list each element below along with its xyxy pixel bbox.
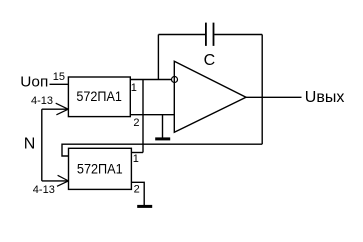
wire D1 pin 2 to op-amp non-inverting input (130, 114, 174, 116)
svg-text:4-13: 4-13 (33, 184, 55, 196)
svg-text:C: C (204, 52, 216, 69)
bus arrowhead D2 (57, 175, 68, 186)
op-amp U1 triangle (174, 61, 246, 132)
wire Uоп to DAC D1 pin 15 (50, 83, 69, 85)
wire feedback bottom (output to D2 reference input) (62, 144, 262, 156)
wire output (246, 96, 302, 98)
svg-text:1: 1 (131, 82, 137, 94)
svg-text:1: 1 (133, 153, 139, 165)
svg-text:Uвых: Uвых (305, 89, 345, 106)
wire junction: D1 pin1 node down to D2 pin1 (142, 80, 144, 153)
wire D2 pin 2 to ground (131, 182, 144, 205)
svg-text:Uоп: Uоп (20, 73, 48, 90)
svg-text:2: 2 (134, 183, 140, 195)
svg-text:572ПА1: 572ПА1 (76, 88, 122, 104)
svg-text:15: 15 (53, 71, 65, 83)
wire digital bus into D2 (42, 180, 69, 182)
DAC D2 box (572ПА1 bottom) (69, 148, 132, 189)
wire feedback right vertical (capacitor to output and down) (261, 35, 263, 145)
svg-text:572ПА1: 572ПА1 (77, 161, 123, 177)
ground GND1 (op-amp + input) (162, 115, 164, 138)
svg-text:N: N (24, 135, 36, 152)
ground GND2 (D2 pin 2) (137, 205, 152, 208)
op-amp inverting input circle (172, 77, 178, 83)
wire D2 pin 1 to junction (131, 152, 143, 154)
wire digital bus into D1 (42, 108, 69, 110)
wire D1 pin 1 output to op-amp inverting input (130, 79, 171, 81)
svg-text:2: 2 (133, 117, 139, 129)
wire feedback top (to capacitor C) (158, 34, 262, 36)
bus arrowhead D1 (56, 103, 68, 115)
capacitor C plates (206, 23, 214, 46)
wire feedback left vertical (inverting node up to capacitor) (157, 35, 159, 80)
DAC D1 box (572ПА1 top) (68, 77, 130, 117)
svg-text:4-13: 4-13 (31, 95, 53, 107)
wire N vertical bus (41, 109, 43, 181)
